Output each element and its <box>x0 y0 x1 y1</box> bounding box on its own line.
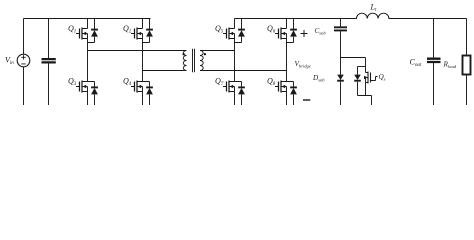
body diode of Q1 <box>88 19 98 43</box>
top rail, primary side <box>24 18 151 20</box>
top rail, secondary side, inductor Lt inline <box>235 3 467 19</box>
svg-text:Q3: Q3 <box>68 77 77 88</box>
wire: snubber branch top <box>341 58 366 73</box>
svg-text:Cout: Cout <box>410 57 422 68</box>
wire: leg C midpoint <box>234 51 236 82</box>
wire: D2 tail to bottom <box>358 82 372 105</box>
body diode of Q7 <box>238 82 245 106</box>
body diode of Q8 <box>290 82 297 106</box>
svg-text:Lt: Lt <box>370 3 377 14</box>
diode D2 <box>354 67 361 81</box>
transformer T1 secondary winding <box>200 51 206 71</box>
capacitor Csnb <box>315 19 348 58</box>
body diode of Q5 <box>235 19 245 43</box>
transistor Q1 <box>68 19 88 51</box>
transistor Q7 <box>215 77 242 106</box>
svg-text:Q7: Q7 <box>215 77 224 88</box>
diode Dsnb <box>337 58 344 81</box>
body diode of Q2 <box>143 19 153 43</box>
body diode of Q4 <box>146 82 153 106</box>
capacitor Cin <box>42 19 56 106</box>
wire: leg D midpoint <box>286 51 288 82</box>
transformer T1 core <box>193 49 195 73</box>
svg-text:Q4: Q4 <box>123 77 132 88</box>
wire: primary top <box>88 50 187 52</box>
transistor Q6 <box>267 19 287 51</box>
wire: leg B midpoint <box>142 51 144 82</box>
transistor Q4 <box>123 77 150 106</box>
transistor Q8 <box>267 77 294 106</box>
svg-text:Dsnb: Dsnb <box>312 74 325 83</box>
resistor Rload <box>443 19 471 106</box>
capacitor Cout <box>410 19 441 106</box>
svg-text:Q8: Q8 <box>267 77 276 88</box>
svg-text:Q5: Q5 <box>215 24 224 35</box>
svg-text:Vin: Vin <box>5 56 14 67</box>
svg-text:Vbridge: Vbridge <box>295 60 311 69</box>
body diode of Q6 <box>287 19 297 43</box>
svg-text:Qs: Qs <box>379 73 386 82</box>
body diode of Q3 <box>91 82 98 106</box>
transistor Q2 <box>123 19 143 51</box>
wire: Vin top lead <box>23 19 25 55</box>
svg-text:Rload: Rload <box>443 61 457 70</box>
wire: leg A midpoint <box>87 51 89 82</box>
transistor Qs snubber switch <box>364 72 386 96</box>
svg-text:Q1: Q1 <box>68 24 76 35</box>
transistor Q5 <box>215 19 235 51</box>
wire: primary bottom <box>143 70 187 72</box>
svg-text:Csnb: Csnb <box>315 27 327 36</box>
wire: secondary top <box>200 50 235 52</box>
wire: Vin bottom lead <box>23 67 25 105</box>
svg-text:Q6: Q6 <box>267 24 276 35</box>
transistor Q3 <box>68 77 95 106</box>
transformer T1 primary winding <box>182 51 186 71</box>
svg-text:Q2: Q2 <box>123 24 132 35</box>
node minus: bridge output negative <box>303 99 310 101</box>
voltage source Vin <box>5 54 30 67</box>
wire: Dsnb to bottom <box>340 82 342 105</box>
node plus: bridge output positive <box>301 30 308 37</box>
wire: secondary bottom <box>200 70 287 72</box>
wire: snubber mid bar <box>358 66 366 68</box>
